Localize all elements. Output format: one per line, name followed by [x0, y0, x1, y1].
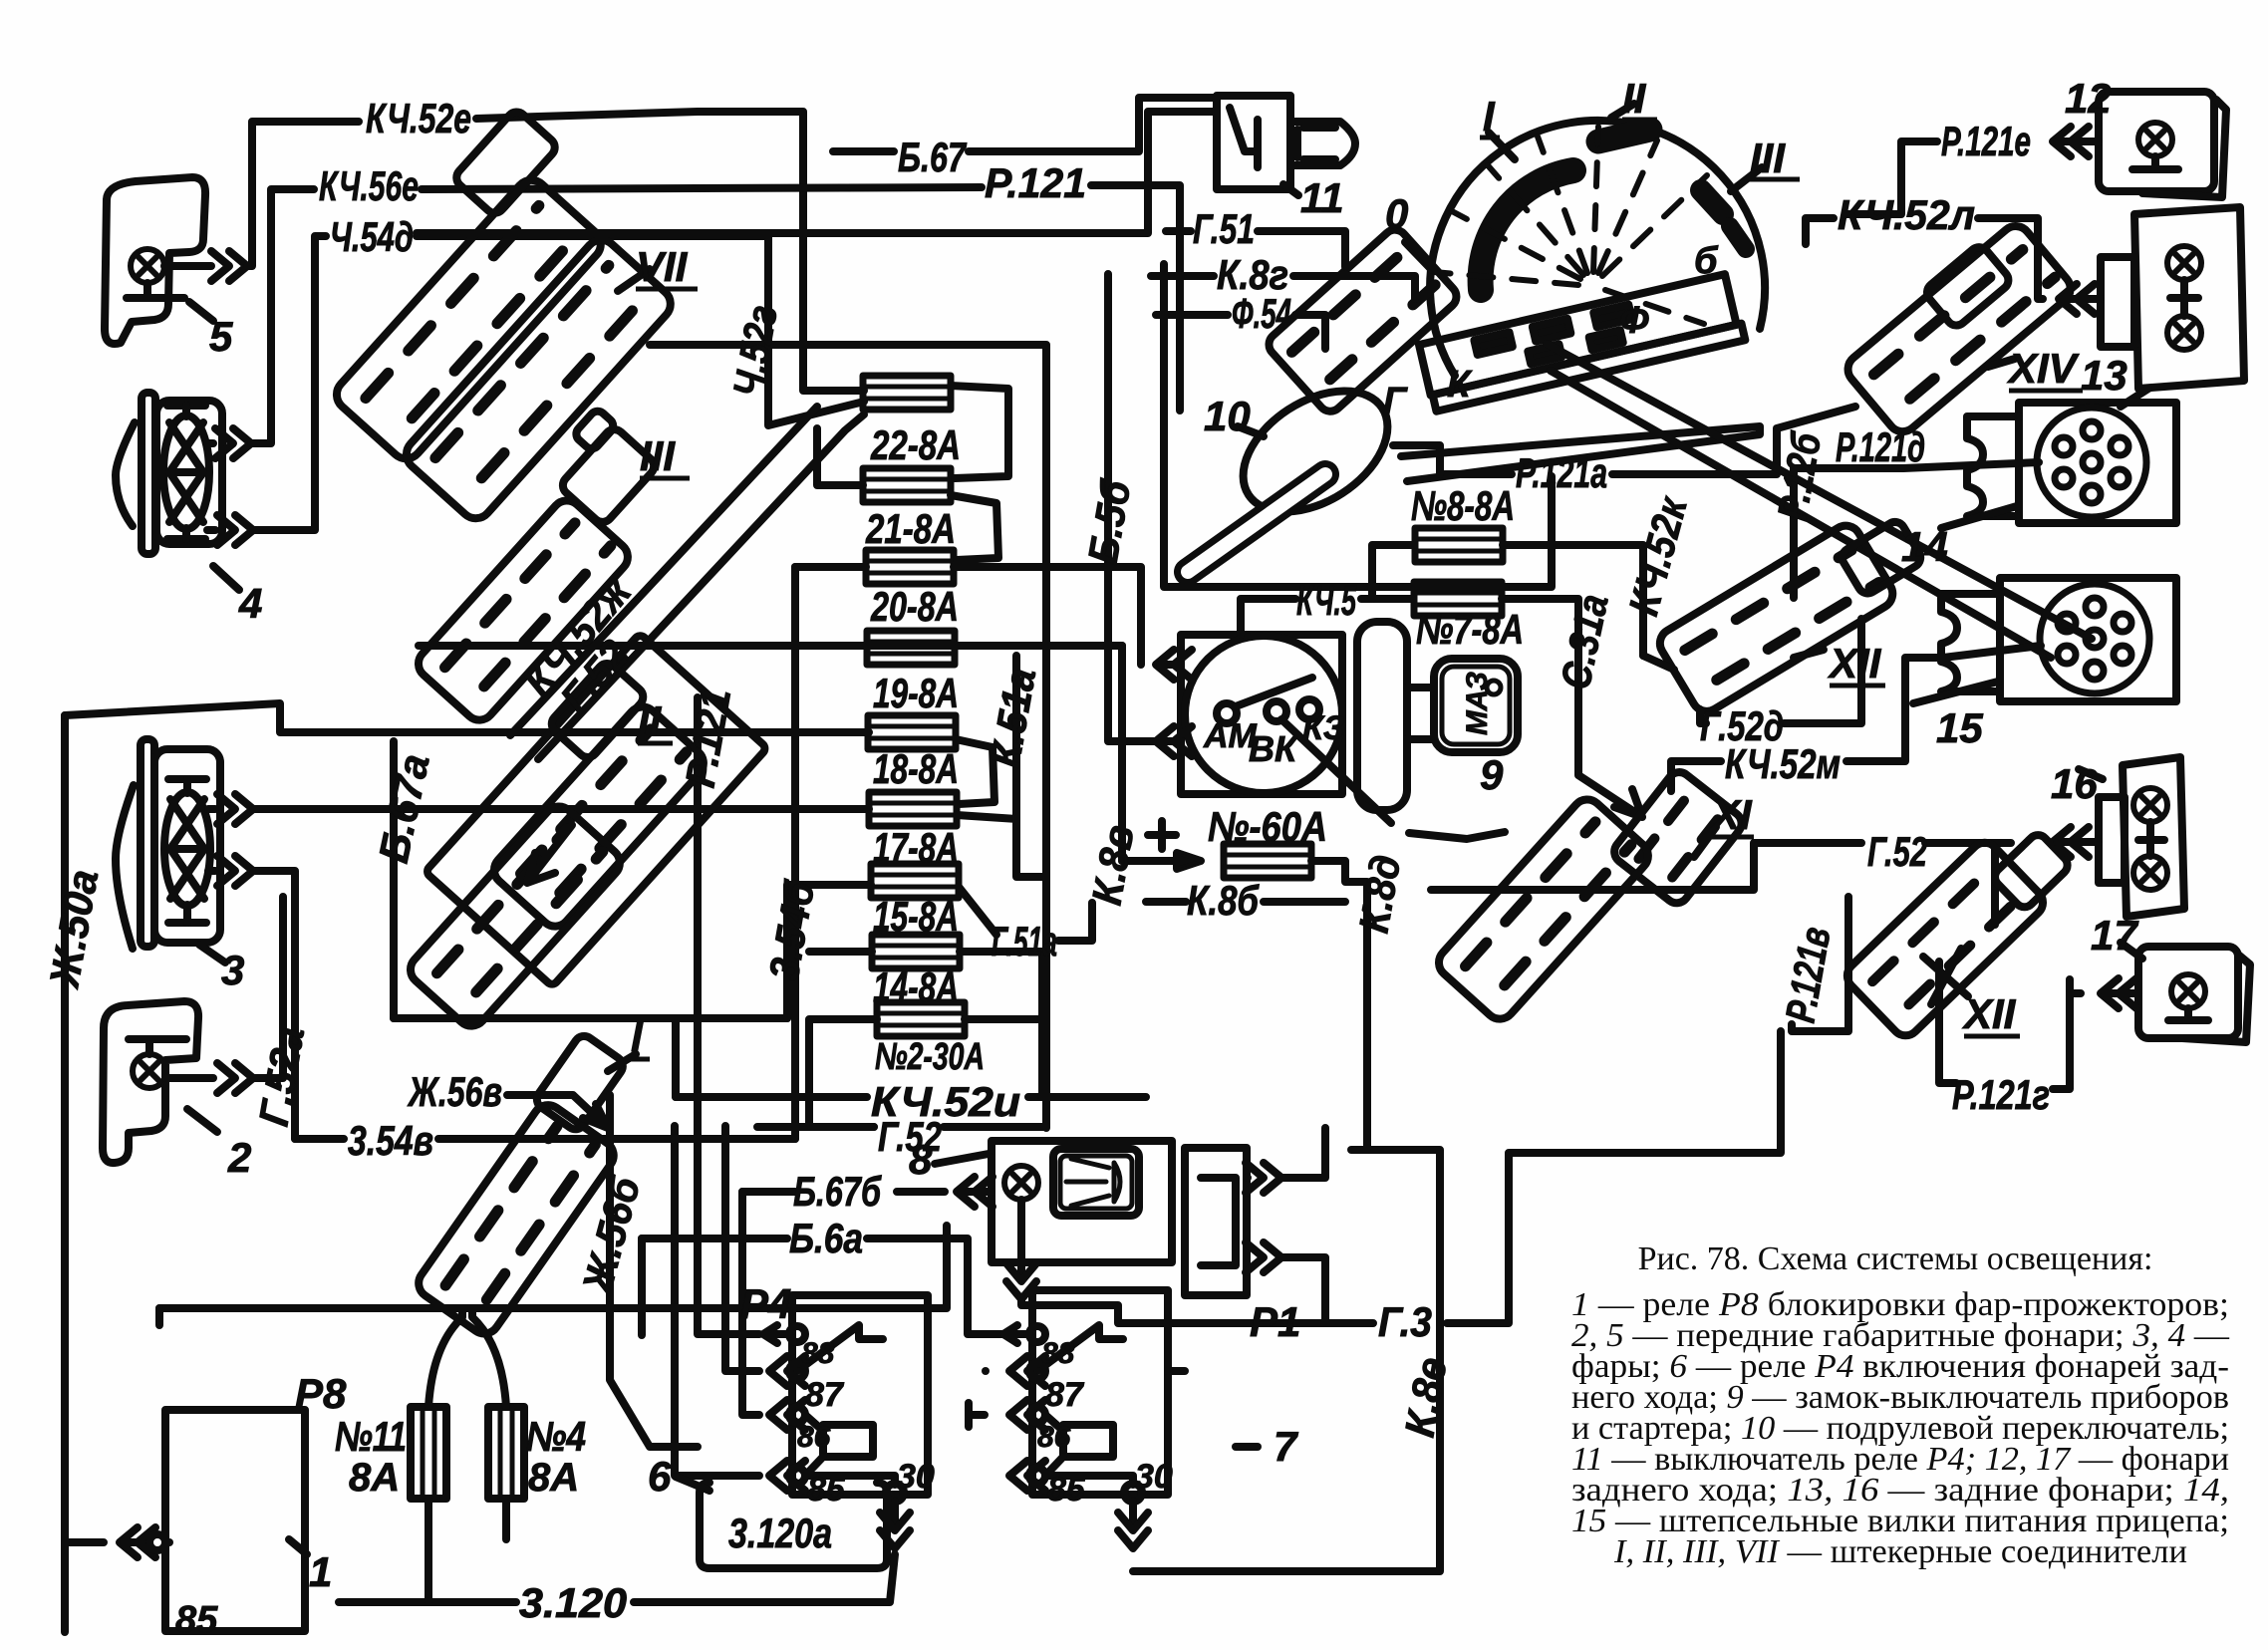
pointer 6 [676, 1477, 709, 1491]
key МАЗ [1434, 659, 1518, 752]
connector II shell outline [425, 634, 767, 986]
ignition feed arrow АМ [1156, 650, 1192, 680]
wire Р.121д to plug 14 [1794, 462, 2039, 468]
plus sign [1148, 821, 1176, 849]
wire long horizontal y648 [419, 642, 1122, 650]
svg-text:КЧ.56е: КЧ.56е [319, 162, 419, 209]
wire Р.121г brackets [1939, 962, 2070, 1089]
fuse 15-8А [871, 864, 959, 898]
wire fuse17 right / К.51а [957, 656, 1042, 877]
wire КЧ.52л to lamp 13 [2059, 284, 2095, 314]
wire y1330 left loop [155, 1308, 163, 1325]
svg-text:88: 88 [801, 1337, 835, 1370]
svg-text:Р.121г: Р.121г [1952, 1071, 2050, 1118]
connector III block [413, 494, 634, 725]
switch stalk wedge [1401, 426, 1760, 481]
svg-text:14-8А: 14-8А [873, 963, 959, 1010]
relay Р4 armature [797, 1325, 883, 1371]
wire fuse8 right / КЧ.52к vertical [1503, 545, 1643, 656]
wire fuse21 left [817, 428, 863, 485]
wire 3.120а box [700, 1483, 887, 1568]
wire Ч.52г vertical label stub [764, 239, 772, 345]
dial spoke ticks to labels [1405, 104, 1762, 270]
svg-text:10: 10 [1204, 393, 1251, 439]
rear lamp 13 [2101, 207, 2244, 407]
wire КЧ.52м left link [1671, 761, 1721, 791]
lamp 8 bulb [1004, 1166, 1038, 1200]
wire VII block to Ч.52г vertical [650, 341, 768, 349]
svg-text:Г.3: Г.3 [1378, 1298, 1432, 1345]
svg-text:3.54в: 3.54в [348, 1117, 433, 1164]
svg-text:Р.121а: Р.121а [1516, 449, 1607, 496]
wire fuse21 right chain [951, 495, 998, 560]
svg-text:17-8А: 17-8А [873, 824, 959, 871]
wire bottom long horizontal y1313 [159, 1226, 947, 1308]
connector VII block a [330, 173, 607, 465]
frame around stalk [1164, 264, 1552, 587]
label I dial [1480, 93, 1500, 139]
dial III marks [1701, 190, 1723, 214]
fuse №11 [411, 1407, 446, 1499]
svg-text:КЧ.52е: КЧ.52е [366, 95, 471, 141]
wire Ж.56в with arrow into I [507, 1095, 608, 1128]
connector XIV [1842, 220, 2076, 437]
switch contact cluster [1265, 225, 1462, 416]
wire fuse14 right [960, 948, 1042, 956]
ignition diagonal to pointer 9 [1281, 719, 1505, 839]
label III [640, 432, 690, 479]
fuse 14-8А [872, 935, 960, 968]
wire lamp5 to КЧ.52е [247, 122, 359, 266]
wire Ф.54 [1156, 315, 1325, 349]
svg-text:21-8А: 21-8А [865, 505, 956, 552]
relay Р4 coil [823, 1425, 873, 1457]
svg-text:III: III [1750, 135, 1786, 181]
svg-text:2: 2 [227, 1134, 251, 1181]
svg-text:II: II [638, 697, 663, 744]
label VII [636, 243, 698, 290]
svg-text:30: 30 [1135, 1458, 1173, 1496]
svg-text:№2-30А: №2-30А [875, 1036, 985, 1078]
svg-text:87: 87 [1045, 1376, 1085, 1414]
wire Г.3 [1021, 1031, 1781, 1323]
svg-text:3.120а: 3.120а [728, 1510, 832, 1556]
relay Р1 contacts [969, 1325, 1045, 1491]
wire Р.121а left vertical [1393, 445, 1440, 474]
fuse 17-8А [869, 792, 957, 826]
front marker lamp 5 [105, 177, 247, 344]
fuse №4 [488, 1407, 524, 1499]
wire Ч.54д to fuse 22 [417, 236, 864, 425]
wire Б.6а left vertical [638, 1238, 646, 1335]
wire fuse №4 bottom stub [502, 1499, 510, 1539]
svg-text:13: 13 [2081, 352, 2127, 399]
connector I block [413, 1099, 619, 1339]
svg-text:8А: 8А [528, 1456, 579, 1500]
label I conn [628, 1013, 650, 1060]
connector XIV tab [1923, 243, 2013, 330]
relay Р1 armature [1037, 1325, 1123, 1371]
svg-text:№7-8А: №7-8А [1416, 606, 1524, 653]
wire Р.121а [1440, 407, 1855, 474]
svg-text:86: 86 [797, 1421, 831, 1454]
svg-text:5: 5 [209, 313, 233, 360]
headlamp 4 [116, 393, 239, 590]
svg-text:КЧ.52м: КЧ.52м [1725, 740, 1841, 787]
wire fuse22 right chain [951, 386, 1008, 478]
wire К.8г [1151, 276, 1415, 299]
connector XII lower [1842, 837, 2049, 1041]
wire lamp4 bottom to Ч.54д [217, 515, 253, 545]
svg-text:III: III [640, 432, 676, 479]
steering column switch plates [1419, 273, 1745, 412]
wire Г.52 diagonal pair along III [510, 407, 864, 759]
wire arrow into II block [527, 825, 572, 883]
svg-text:19-8А: 19-8А [873, 670, 959, 716]
svg-text:Ж.56в: Ж.56в [407, 1068, 502, 1115]
svg-text:12: 12 [2065, 75, 2112, 122]
wire Б.67б [957, 1177, 992, 1207]
svg-text:Р8: Р8 [295, 1370, 347, 1417]
svg-text:№8-8А: №8-8А [1411, 482, 1515, 529]
connector box right of lamp 8 [1185, 1148, 1247, 1295]
svg-text:б: б [1694, 240, 1719, 282]
wire К.8е vertical top link [1351, 1146, 1367, 1154]
ignition switch circle [1185, 636, 1342, 793]
relay Р1 coil [1063, 1425, 1113, 1457]
wire Б.5б long vertical [768, 345, 1046, 1128]
svg-text:Г.51: Г.51 [1193, 205, 1255, 252]
wire Б.67а vertical [390, 741, 398, 1018]
wire fuse№2 left / Г.52 link [809, 1019, 877, 1127]
headlamp 3 [116, 739, 225, 962]
svg-text:1: 1 [309, 1548, 332, 1595]
svg-text:Г: Г [1383, 381, 1408, 422]
wire КЧ.52е [476, 112, 864, 391]
lamp 8 down arrow [1017, 1200, 1025, 1277]
fuse №-60А [1224, 844, 1311, 878]
stalk handle rod [1188, 474, 1325, 572]
svg-text:0: 0 [1385, 190, 1408, 237]
svg-text:КЧ.52л: КЧ.52л [1838, 191, 1975, 238]
connector XIV pointer [1988, 359, 2015, 367]
connector XII upper [1654, 520, 1898, 716]
relay Р1 node 30 [1045, 1476, 1133, 1485]
wire fuse №11 bottom to 3.120 [425, 1499, 432, 1602]
fuse №2-30А [877, 1002, 965, 1036]
svg-text:14: 14 [1901, 523, 1948, 570]
svg-text:18-8А: 18-8А [873, 745, 959, 792]
svg-text:20-8А: 20-8А [870, 583, 959, 630]
wire Г.51 [1166, 231, 1345, 267]
svg-text:№4: №4 [526, 1413, 586, 1460]
wire Б.67 to switch 11 [833, 98, 1217, 151]
wire fuse15 right / Г.51а [959, 887, 1092, 941]
ignition pin ВК [1267, 701, 1286, 721]
ignition pin АМ [1217, 703, 1237, 723]
svg-text:16: 16 [2051, 760, 2098, 807]
wires fuse №11/№4 tops [428, 1308, 506, 1407]
wire lamp4 top to КЧ.56е [215, 428, 251, 458]
wire Ж.50а bottom to relay Р8 [120, 1527, 155, 1557]
wire Р.121в vertical [1792, 897, 1848, 1031]
dial II mark [1598, 130, 1650, 141]
svg-text:Рис. 78. Схема системы освещен: Рис. 78. Схема системы освещения: [1638, 1240, 2153, 1277]
dash lamp 8 box [992, 1141, 1172, 1262]
svg-text:Б.67: Б.67 [898, 134, 967, 180]
relay Р4 node 30 [805, 1476, 895, 1485]
wire Ж.56б vertical [610, 1095, 698, 1447]
svg-text:I, II, III, VII — штекерные со: I, II, III, VII — штекерные соединители [1613, 1533, 2187, 1570]
wire 3.54в horizontal [295, 1135, 795, 1143]
relay Р4 contacts [763, 1325, 805, 1491]
wire 3.54б vertical [791, 567, 799, 1139]
svg-text:Б.67б: Б.67б [793, 1168, 882, 1215]
connector XI small [1609, 767, 1746, 908]
wire fuse20 right to ignition [954, 567, 1141, 658]
wire lamp2 to bundle [217, 1063, 253, 1093]
wire lamp3 top to fuse 17 [217, 794, 253, 824]
wires connector box arrows right [1246, 1163, 1281, 1193]
wire Г.52д [1700, 619, 1861, 723]
ignition feed arrow ВК [1156, 726, 1192, 756]
svg-text:XII: XII [1828, 640, 1882, 687]
label II [638, 697, 673, 744]
wire КЧ.52и horizontal [676, 1093, 1146, 1101]
pointer 8 [935, 1154, 989, 1164]
svg-text:К.8б: К.8б [1187, 877, 1260, 924]
connector I pointer [608, 1054, 636, 1071]
wire Г.52 horizontal mid [757, 1123, 1046, 1131]
svg-text:№11: №11 [335, 1413, 407, 1460]
svg-text:15-8А: 15-8А [873, 893, 959, 940]
connector XII lower pointer X [1923, 949, 1968, 1004]
svg-text:4: 4 [238, 580, 262, 627]
svg-text:85: 85 [1047, 1471, 1086, 1509]
wire fuse7 right / С.31а vertical [1502, 599, 1642, 817]
wire Р.12б vertical [1790, 468, 1798, 598]
svg-text:Р.121е: Р.121е [1941, 118, 2031, 164]
wire vertical x728 [725, 1126, 759, 1371]
stalk handle 10 [1222, 366, 1410, 536]
svg-text:Ф.54: Ф.54 [1232, 290, 1291, 337]
wire fuse60 right / К.8д chain [1133, 861, 1440, 1571]
wire Р1 bottom to К.8е done above [1168, 1367, 1185, 1375]
wire Г.52 to lamp16 bracket [1925, 843, 2011, 925]
wire КЧ.56е / Р.121 horizontal [422, 185, 1180, 411]
wire КЧ.52м to plug 15 [1846, 646, 2041, 761]
svg-text:22-8А: 22-8А [870, 421, 961, 468]
fuse №8-8А [1415, 528, 1503, 562]
svg-text:30: 30 [897, 1458, 935, 1496]
svg-text:I: I [1483, 93, 1496, 139]
switch 11 [1217, 96, 1355, 195]
svg-text:11: 11 [1300, 174, 1344, 221]
connector XII upper pointer [1794, 650, 1824, 658]
svg-text:К: К [1447, 364, 1473, 406]
wire arrow lamp 16 [2053, 827, 2089, 857]
svg-text:7: 7 [1274, 1423, 1298, 1470]
pointer 1 [289, 1539, 307, 1554]
wire КЧ.5 and fuse №7 left [1241, 599, 1413, 635]
wire Р.121е to lamp 12 [2053, 127, 2089, 156]
wire fuse15 left [787, 885, 871, 1018]
relay Р4 outer box [792, 1295, 928, 1495]
pointer 7 [1236, 1443, 1258, 1451]
lamp 8 icon [1053, 1149, 1139, 1216]
svg-text:3.120: 3.120 [519, 1579, 627, 1626]
lamp 12 reverse [2099, 92, 2226, 197]
ignition switch 9 box [1181, 635, 1342, 794]
svg-text:85: 85 [807, 1471, 846, 1509]
svg-text:Р1: Р1 [1250, 1298, 1300, 1345]
wire top-left horizontal to fuse 18 [65, 703, 869, 732]
wire Б.5б-К.8г vertical pair [1108, 274, 1171, 741]
connector XI big block [1433, 793, 1654, 1024]
wire Б.67б to П4 [742, 1192, 759, 1415]
ignition pin КЗ [1299, 699, 1319, 719]
svg-text:Р4: Р4 [740, 1280, 791, 1327]
wire Р.121 long vertical [698, 697, 759, 1334]
svg-text:6: 6 [648, 1453, 672, 1500]
fuse №-60А feed arrow [1122, 853, 1201, 869]
fuse 21-8А [863, 468, 951, 502]
connector VII block b [400, 233, 677, 525]
svg-text:9: 9 [1480, 751, 1504, 798]
ignition key neck [1407, 687, 1432, 739]
svg-text:XI: XI [1710, 791, 1753, 838]
wire К.8в vertical [1118, 646, 1126, 861]
steering dial circle [1430, 121, 1765, 376]
svg-text:88: 88 [1041, 1337, 1075, 1370]
fuse 19-8А [867, 631, 955, 665]
connector I tab [533, 1032, 627, 1133]
svg-text:Б.6а: Б.6а [789, 1215, 863, 1261]
svg-text:8: 8 [909, 1136, 933, 1183]
connector VII tab [452, 108, 559, 216]
fuse 20-8А [866, 550, 954, 584]
label III dial [1750, 135, 1800, 181]
wire Ж.50а vertical [65, 715, 104, 1632]
fuse 18-8А [868, 715, 956, 749]
label XI [1710, 791, 1754, 838]
trailer plug 15 [1913, 578, 2176, 703]
fuse №8-8А bracket [1372, 545, 1413, 599]
label XIV [2007, 345, 2083, 392]
wire Б.6а [642, 1238, 1002, 1334]
connector II tab [548, 660, 648, 761]
wire 3.120 bottom [339, 1554, 895, 1602]
label XII upper [1828, 640, 1885, 687]
svg-text:VII: VII [636, 243, 689, 290]
wire fuse14 left [809, 948, 872, 956]
svg-text:XII: XII [1962, 990, 2017, 1037]
dial dashed spokes [1434, 127, 1707, 324]
reverse lamp 17 [2121, 943, 2250, 1042]
svg-text:№-60А: №-60А [1208, 803, 1327, 850]
svg-text:Г.52: Г.52 [1867, 828, 1927, 875]
svg-text:15: 15 [1936, 704, 1983, 751]
svg-text:Г.51а: Г.51а [992, 918, 1057, 964]
svg-text:II: II [1622, 75, 1647, 122]
connector VII pointer [618, 269, 650, 291]
ignition body slab [1357, 622, 1407, 810]
wire Ж.56б-85 row [675, 1126, 759, 1476]
svg-text:17: 17 [2091, 912, 2138, 959]
trailer plug 14 [1941, 403, 2176, 528]
wire y1022 horizontal [394, 1018, 787, 1097]
connector XII upper tab [1839, 518, 1924, 597]
wire fuse20 left [795, 563, 866, 571]
svg-text:85: 85 [175, 1599, 218, 1641]
svg-text:ВК: ВК [1249, 728, 1299, 769]
wires XIV to plug 15 [1547, 344, 2092, 658]
connector XI pointer [1694, 827, 1716, 857]
svg-text:8А: 8А [349, 1456, 400, 1500]
front marker lamp 2 [103, 1001, 217, 1163]
connector III tab piece [541, 408, 660, 526]
svg-text:XIV: XIV [2007, 345, 2080, 392]
wire К.8б [1146, 898, 1345, 906]
svg-text:Р.121д: Р.121д [1836, 423, 1925, 470]
wire XI bottom horizontal [1431, 843, 1861, 890]
rear lamp 16 [2079, 757, 2184, 917]
relay Р8 box [165, 1410, 305, 1631]
wire lamp3 bottom / Г.52а vertical [217, 856, 253, 886]
wire fuse18 right chain [956, 739, 994, 804]
svg-text:Р.121: Р.121 [985, 159, 1086, 206]
svg-text:87: 87 [805, 1376, 845, 1414]
label II dial [1622, 75, 1657, 122]
label XII lower [1962, 990, 2020, 1037]
svg-text:КЗ: КЗ [1302, 709, 1345, 747]
connector II block b [405, 800, 626, 1031]
svg-text:МАЗ: МАЗ [1461, 672, 1494, 735]
svg-text:КЧ.5: КЧ.5 [1296, 577, 1356, 624]
wire КЧ.52к arrow into XII [1643, 656, 1674, 670]
connector II block a [488, 700, 709, 932]
svg-text:86: 86 [1037, 1421, 1071, 1454]
pointer 10 [1238, 426, 1264, 436]
svg-text:3: 3 [221, 947, 244, 993]
ignition lever [1236, 678, 1312, 706]
wire Ч.54д right to switch 11 [417, 112, 1217, 233]
fuse 22-8А [863, 376, 951, 410]
connector XII lower tab [1991, 831, 2072, 911]
wire fuse№2 right [965, 952, 1042, 1097]
dial thick inner arc [1481, 170, 1573, 290]
svg-text:Ч.54д: Ч.54д [330, 213, 414, 260]
fuse №7-8А [1414, 582, 1502, 616]
wire arrow lamp 17 [2101, 978, 2136, 1008]
relay Р1 outer box [1032, 1290, 1168, 1495]
svg-text:I: I [631, 1013, 644, 1060]
svg-text:Ф: Ф [1619, 300, 1649, 342]
